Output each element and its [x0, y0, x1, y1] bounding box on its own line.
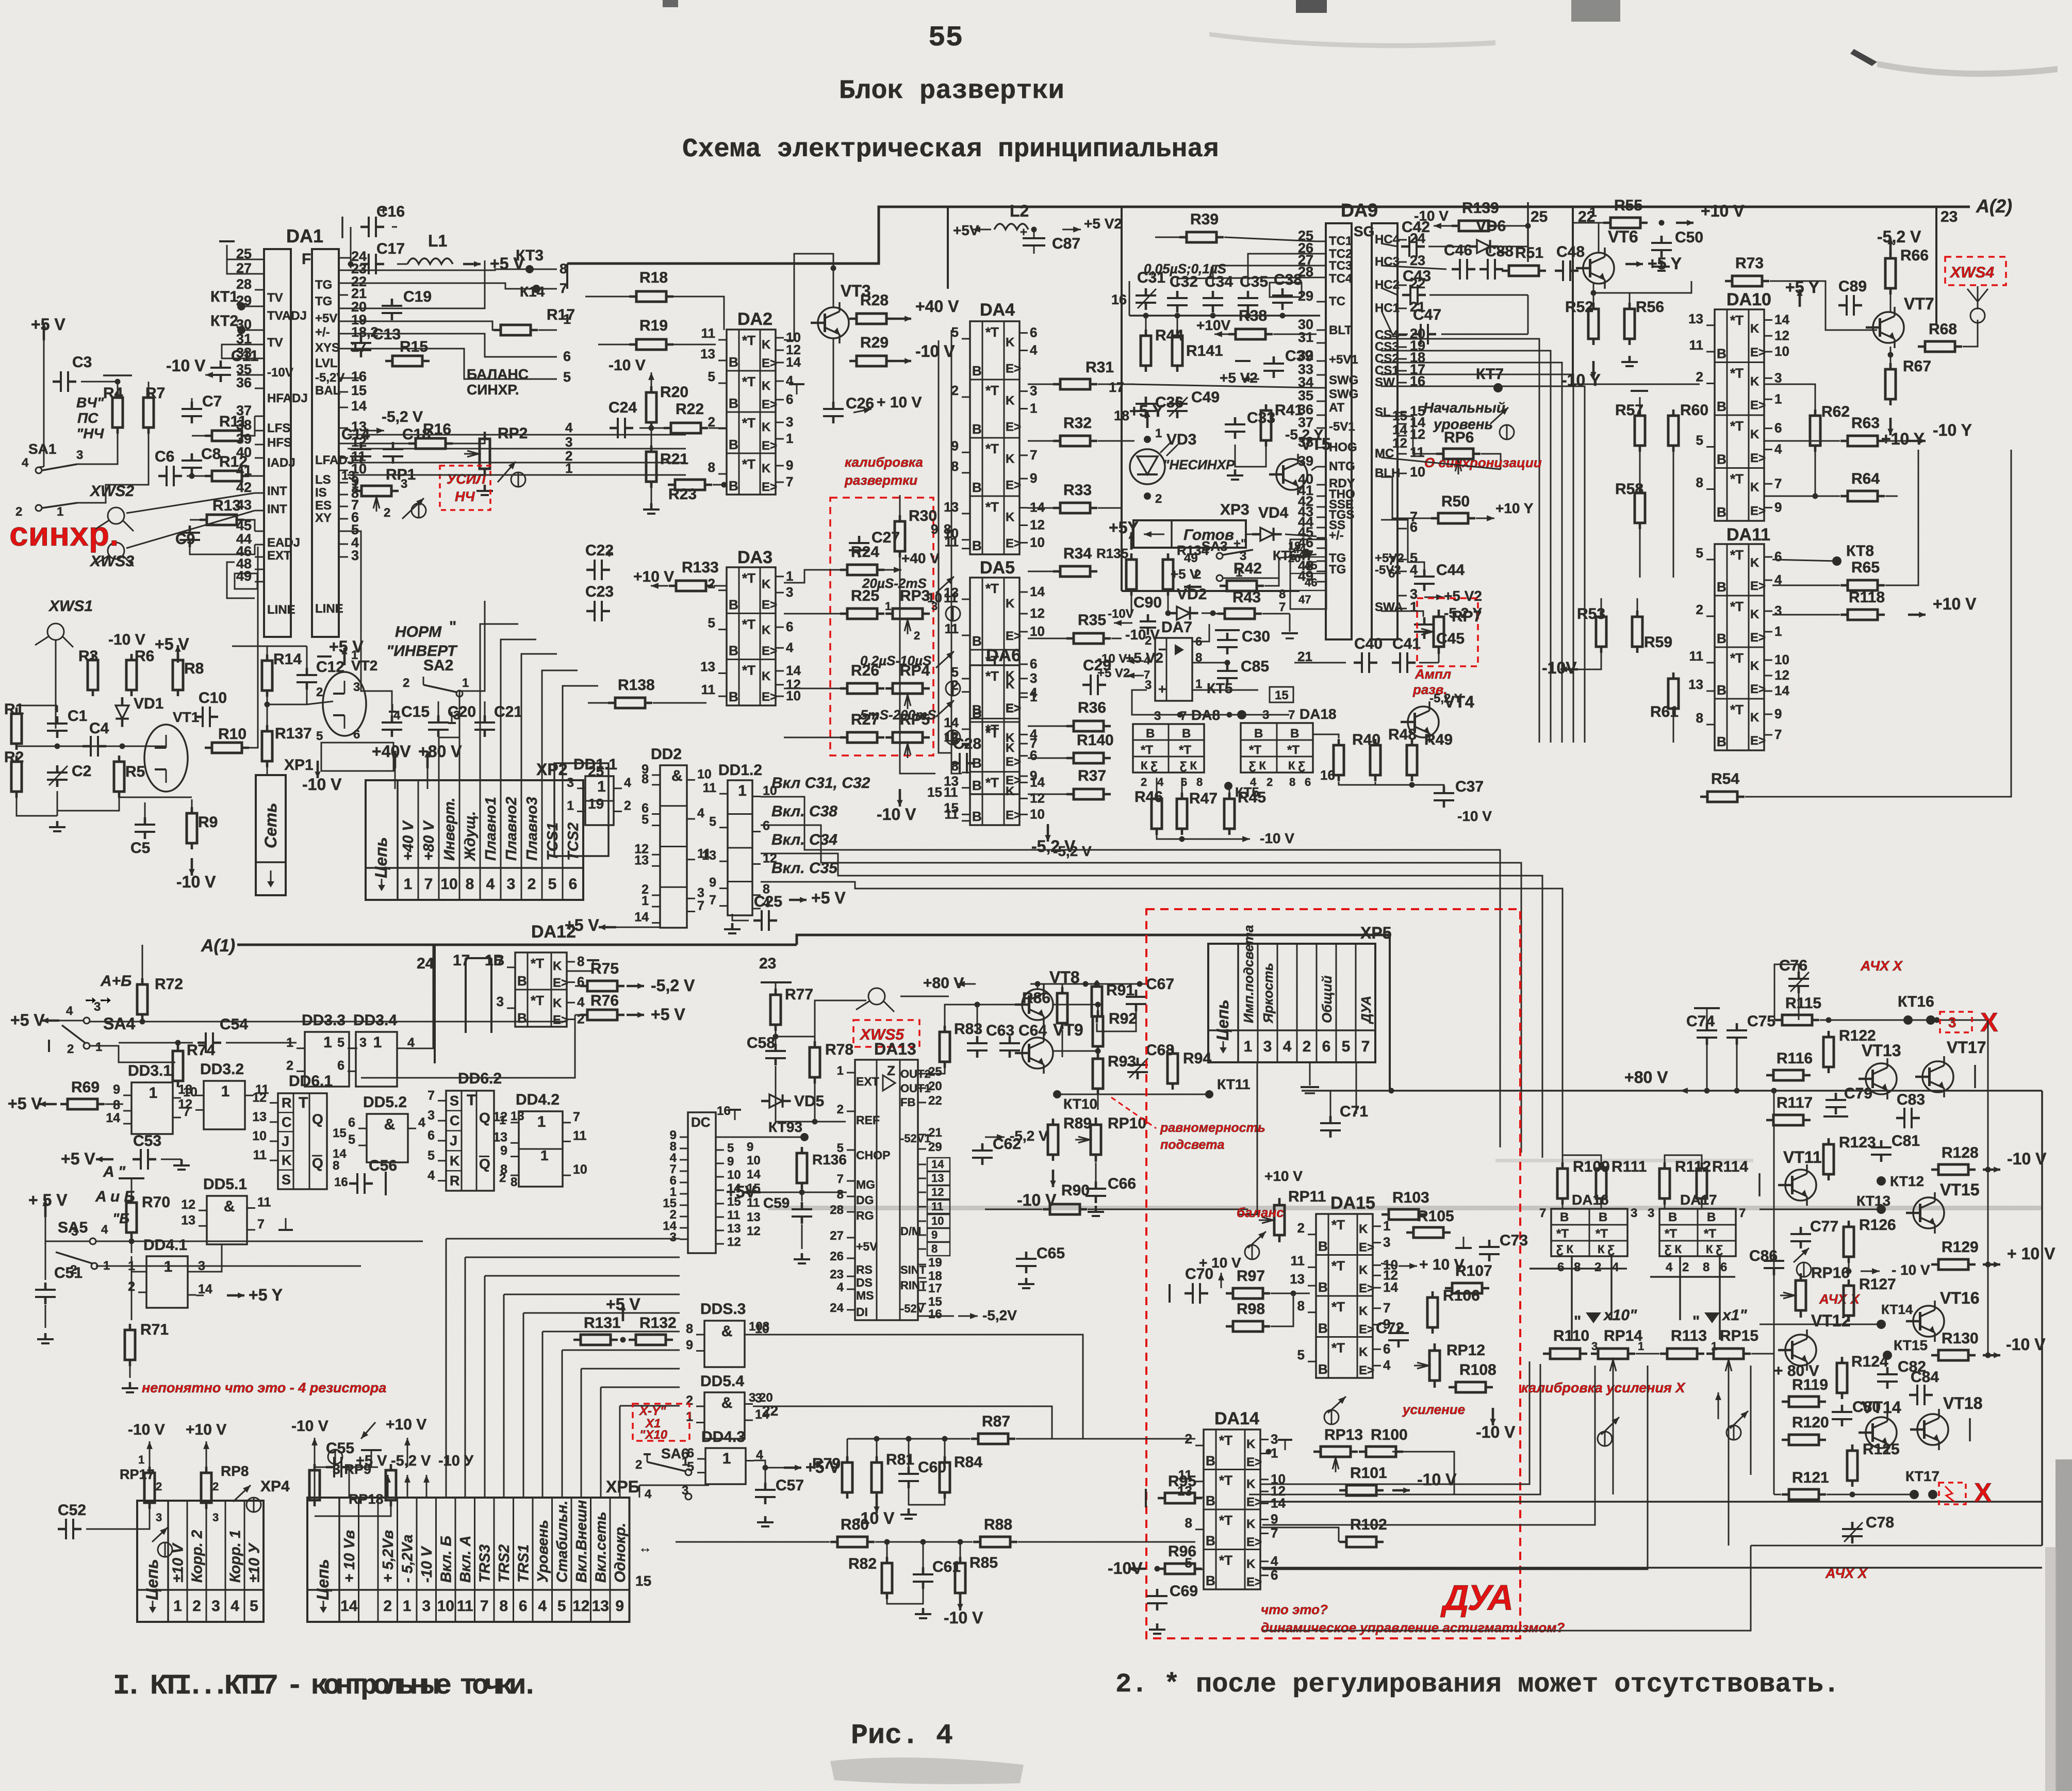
node junction — [1985, 1167, 1991, 1173]
svg-text:C48: C48 — [1556, 243, 1585, 260]
wire — [465, 1257, 680, 1258]
wire — [1573, 384, 1700, 385]
svg-text:R47: R47 — [1189, 790, 1218, 807]
wire — [753, 1406, 1052, 1439]
svg-text:+ 10 V: + 10 V — [877, 394, 922, 411]
svg-text:3: 3 — [1774, 603, 1782, 618]
svg-text:9: 9 — [931, 1228, 938, 1241]
svg-text:R131: R131 — [584, 1315, 621, 1332]
svg-text:DD5.2: DD5.2 — [363, 1094, 407, 1111]
resistor R140 — [1066, 732, 1114, 763]
wire — [1129, 281, 1130, 316]
IC DA9 — [1298, 200, 1425, 639]
svg-text:14: 14 — [106, 1111, 120, 1125]
power terminal -10V r63 — [1908, 421, 1972, 444]
svg-text:К Ƹ: К Ƹ — [1706, 1243, 1723, 1256]
svg-text:TC3: TC3 — [1329, 259, 1352, 273]
power terminal -10V r128 — [1983, 1149, 2047, 1173]
cap stub — [103, 374, 132, 376]
wire — [307, 701, 333, 704]
svg-text:REF: REF — [856, 1113, 880, 1127]
svg-text:9: 9 — [686, 1338, 693, 1353]
svg-text:K: K — [1246, 1517, 1256, 1531]
svg-text:SG: SG — [1354, 223, 1374, 239]
svg-text:MS: MS — [856, 1289, 874, 1302]
svg-text:7: 7 — [257, 1217, 265, 1231]
svg-text:*T: *T — [985, 499, 999, 515]
svg-text:R52: R52 — [1565, 299, 1593, 316]
resistor R81 — [871, 1451, 914, 1499]
svg-text:7: 7 — [424, 876, 433, 893]
svg-text:R78: R78 — [825, 1041, 853, 1058]
svg-text:DD3.2: DD3.2 — [200, 1061, 244, 1078]
svg-text:18: 18 — [928, 1269, 942, 1283]
resistor R59 — [1632, 611, 1672, 653]
adjustment symbol — [1324, 1410, 1339, 1424]
svg-text:Плавно2: Плавно2 — [503, 797, 520, 861]
wire — [90, 1021, 567, 1023]
capacitor C10 — [194, 689, 227, 727]
wire — [1381, 477, 1431, 518]
wire — [243, 547, 258, 748]
svg-text:E>: E> — [1750, 399, 1766, 413]
svg-text:6: 6 — [348, 1115, 355, 1130]
wire — [1673, 709, 1674, 743]
svg-text:4: 4 — [645, 1487, 652, 1501]
gate DD4.3 — [687, 1428, 763, 1484]
svg-text:К Ƹ: К Ƹ — [1288, 759, 1306, 772]
svg-text:12: 12 — [178, 1097, 192, 1111]
svg-text:3: 3 — [670, 1230, 677, 1244]
svg-text:калибровка усиления X: калибровка усиления X — [1521, 1380, 1686, 1395]
resistor R14 — [262, 651, 302, 697]
svg-text:x10": x10" — [1603, 1307, 1637, 1324]
power terminal +5V sa3 — [1109, 518, 1139, 550]
wire — [945, 1005, 1022, 1032]
svg-text:11: 11 — [253, 1148, 267, 1162]
svg-text:+ 5 V: + 5 V — [28, 1191, 68, 1209]
svg-text:5: 5 — [1696, 433, 1703, 448]
wire — [1527, 295, 1529, 334]
node junction — [1409, 782, 1415, 788]
transistor VT18 — [1910, 1394, 1982, 1450]
power terminal +5V vt6 — [1625, 254, 1682, 273]
svg-text:ВЧ": ВЧ" — [76, 395, 104, 410]
svg-text:AT: AT — [1329, 401, 1345, 415]
svg-text:3: 3 — [786, 414, 793, 430]
wire — [909, 1486, 945, 1505]
svg-text:-10 V: -10 V — [419, 1546, 435, 1583]
svg-text:Уровень: Уровень — [535, 1520, 551, 1583]
resistor R96 — [1158, 1543, 1202, 1574]
svg-text:13: 13 — [1688, 677, 1703, 692]
IC DA8 — [1133, 724, 1204, 773]
svg-text:K: K — [1006, 784, 1015, 798]
wire — [1381, 520, 1424, 571]
svg-text:R69: R69 — [71, 1079, 100, 1096]
resistor R10 — [205, 726, 249, 753]
capacitor C32 — [1167, 273, 1198, 313]
svg-text:R25: R25 — [851, 587, 879, 604]
wire — [1375, 782, 1376, 785]
svg-text:DA6: DA6 — [986, 646, 1021, 665]
svg-text:E>: E> — [762, 480, 777, 494]
svg-text:АЧХ X: АЧХ X — [1860, 958, 1903, 974]
adjustment symbol — [328, 1450, 342, 1464]
svg-text:RP2: RP2 — [498, 425, 528, 442]
svg-text:23: 23 — [759, 955, 776, 972]
resistor RP9 — [309, 1464, 320, 1506]
svg-text:К Ƹ: К Ƹ — [1598, 1243, 1615, 1256]
resistor R86 — [1022, 987, 1067, 1029]
resistor R2 — [4, 749, 24, 798]
wire — [1028, 726, 1066, 727]
svg-text:C90: C90 — [1133, 594, 1162, 611]
capacitor C46 — [1444, 242, 1475, 280]
wire — [1772, 560, 1837, 561]
svg-text:ДУА: ДУА — [1440, 1578, 1512, 1618]
svg-text:R98: R98 — [1237, 1301, 1265, 1318]
capacitor C2 — [47, 763, 91, 787]
svg-text:11: 11 — [701, 325, 716, 341]
wire — [538, 330, 557, 331]
wire — [876, 1439, 878, 1463]
connector XP1 — [256, 775, 286, 895]
svg-text:DA4: DA4 — [980, 300, 1015, 320]
svg-text:B: B — [517, 973, 527, 989]
svg-text:+5V1: +5V1 — [1329, 353, 1358, 367]
wire — [581, 1368, 680, 1370]
svg-text:Ƹ К: Ƹ К — [1665, 1243, 1682, 1256]
svg-text:Вкл. А: Вкл. А — [457, 1536, 474, 1583]
capacitor C47 — [1412, 306, 1441, 344]
svg-text:1: 1 — [138, 1453, 144, 1466]
svg-text:DD4.2: DD4.2 — [516, 1091, 560, 1108]
svg-text:12: 12 — [493, 1110, 507, 1124]
connector XWS2 — [89, 483, 134, 531]
svg-text:B: B — [1254, 727, 1263, 741]
capacitor C58 — [747, 1034, 786, 1065]
wire — [1224, 237, 1317, 241]
flip-flop DD6.1 — [252, 1073, 333, 1189]
node junction — [348, 261, 354, 267]
resistor R65 — [1840, 559, 1885, 590]
wire — [438, 701, 439, 717]
svg-text:R63: R63 — [1851, 415, 1880, 432]
svg-text:J: J — [282, 1133, 289, 1149]
resistor R55 — [1603, 197, 1648, 228]
resistor R30 — [895, 507, 937, 557]
svg-text:*T: *T — [742, 570, 755, 586]
svg-text:K: K — [553, 959, 562, 973]
power terminal -10V r85 — [944, 1593, 983, 1627]
wire — [1097, 1089, 1099, 1110]
svg-text:TV: TV — [267, 291, 283, 305]
wire — [1062, 1030, 1063, 1057]
svg-text:7: 7 — [697, 899, 704, 913]
svg-text:C56: C56 — [369, 1157, 397, 1174]
svg-text:Вкл.сеть: Вкл.сеть — [593, 1511, 609, 1583]
capacitor C41 — [1392, 635, 1421, 673]
svg-text:12: 12 — [252, 1091, 267, 1105]
svg-text:12: 12 — [1392, 435, 1407, 451]
svg-text:9: 9 — [747, 1140, 753, 1154]
svg-text:B: B — [1318, 1279, 1328, 1295]
svg-text:TCS1: TCS1 — [545, 823, 561, 861]
svg-text:10: 10 — [1030, 806, 1045, 821]
resistor R13 — [200, 497, 244, 525]
wire — [446, 439, 485, 443]
wire — [1260, 1501, 2042, 1503]
svg-text:1: 1 — [404, 876, 413, 893]
svg-text:DD3.1: DD3.1 — [128, 1062, 172, 1079]
svg-text:E>: E> — [1246, 1455, 1262, 1469]
svg-text:K: K — [1750, 556, 1759, 570]
svg-text:Ƹ К: Ƹ К — [1249, 759, 1267, 772]
wire — [267, 761, 268, 775]
svg-text:E>: E> — [762, 690, 777, 704]
resistor R93 — [1093, 1053, 1136, 1095]
svg-text:B: B — [1146, 727, 1155, 741]
wire — [653, 702, 706, 704]
svg-text:5: 5 — [727, 1141, 734, 1155]
wire — [1774, 964, 1799, 1020]
svg-text:K: K — [1359, 1304, 1368, 1318]
resistor R92 — [1093, 1010, 1137, 1053]
resistor R135 — [1126, 553, 1137, 596]
svg-text:6: 6 — [519, 1598, 528, 1615]
IC DA5 — [944, 558, 1045, 794]
svg-text:C59: C59 — [763, 1195, 790, 1211]
svg-text:+10 Y: +10 Y — [1495, 500, 1534, 516]
capacitor C72 — [1376, 1320, 1409, 1348]
resistor R139 — [1452, 200, 1499, 231]
wire — [1890, 293, 1892, 312]
svg-text:B: B — [1717, 631, 1726, 646]
wire — [1815, 446, 1816, 496]
svg-text:11: 11 — [747, 1196, 760, 1210]
connector table XP4 — [137, 1501, 264, 1622]
wire — [96, 1266, 361, 1267]
svg-text:L1: L1 — [428, 232, 447, 250]
svg-text:8: 8 — [466, 876, 474, 893]
wire — [1593, 293, 1630, 309]
wire — [1131, 589, 1132, 614]
svg-text:DD3.3: DD3.3 — [302, 1012, 346, 1029]
wire — [1613, 1374, 1614, 1494]
wire — [1389, 935, 1391, 1091]
svg-text:*T: *T — [742, 616, 755, 632]
svg-text:CHOP: CHOP — [856, 1148, 890, 1162]
svg-text:КТ93: КТ93 — [768, 1119, 802, 1135]
svg-text:ES: ES — [315, 499, 332, 513]
svg-text:XYS: XYS — [315, 341, 340, 355]
test point KT15 — [1883, 1351, 1892, 1360]
wire — [222, 344, 255, 358]
svg-text:8: 8 — [1289, 776, 1295, 788]
svg-text:EXT: EXT — [856, 1075, 879, 1088]
resistor R15 — [385, 338, 430, 366]
svg-text:C17: C17 — [376, 240, 405, 257]
wire — [1665, 1155, 1702, 1169]
power terminal +5V sa5 — [28, 1191, 68, 1217]
svg-text:+40 V: +40 V — [915, 297, 959, 316]
svg-text:3: 3 — [427, 1108, 435, 1123]
red dashed box XWS4 — [1945, 257, 2006, 285]
wire — [926, 1062, 945, 1074]
svg-text:4: 4 — [577, 994, 585, 1010]
resistor R111 — [1596, 1158, 1647, 1205]
wire — [1987, 1264, 1989, 1324]
wire — [1177, 277, 1317, 286]
svg-text:IS: IS — [315, 486, 327, 500]
resistor R110 — [1543, 1327, 1589, 1359]
svg-text:VT16: VT16 — [1940, 1289, 1979, 1307]
wire — [1598, 223, 1600, 253]
resistor R130 — [1931, 1330, 1979, 1360]
svg-text:R74: R74 — [187, 1042, 215, 1059]
svg-text:B: B — [729, 643, 738, 659]
svg-text:1: 1 — [563, 311, 571, 327]
node junction — [1934, 1017, 1940, 1023]
svg-text:C34: C34 — [1205, 273, 1233, 290]
svg-text:R107: R107 — [1455, 1262, 1492, 1279]
gate DD2 — [634, 746, 712, 928]
svg-text:1: 1 — [373, 1034, 382, 1051]
node junction — [55, 744, 60, 749]
svg-text:−: − — [1158, 642, 1166, 657]
wire — [446, 1238, 680, 1240]
resistor R136 — [797, 1147, 807, 1189]
svg-text:+/-: +/- — [315, 325, 330, 339]
svg-text:C3: C3 — [72, 354, 92, 371]
svg-text:R6: R6 — [135, 648, 154, 665]
wire — [350, 227, 352, 268]
svg-text:C10: C10 — [199, 689, 227, 706]
svg-text:*T: *T — [1730, 471, 1744, 487]
svg-text:-10 V: -10 V — [128, 1421, 165, 1438]
wire — [1429, 294, 1528, 296]
svg-text:1: 1 — [1030, 689, 1037, 704]
svg-text:INT: INT — [267, 502, 287, 516]
svg-text:E>: E> — [1359, 1241, 1374, 1255]
capacitor C67 — [1126, 976, 1174, 1011]
svg-text:2: 2 — [383, 1598, 392, 1615]
wire — [1750, 1366, 1752, 1475]
svg-text:LS: LS — [315, 473, 331, 487]
flip-flop DD6.2 — [427, 1070, 502, 1191]
resistor R73 — [1725, 255, 1769, 286]
resistor R127 — [1844, 1276, 1896, 1322]
wire — [1132, 690, 1289, 715]
svg-text:*T: *T — [1556, 1227, 1569, 1241]
wire — [1111, 638, 1122, 639]
wire — [55, 640, 57, 729]
svg-text:2: 2 — [1155, 492, 1162, 506]
red dashed box XY — [633, 1404, 689, 1441]
resistor R125 — [1847, 1441, 1900, 1487]
capacitor C31 — [1136, 269, 1165, 310]
svg-text:1: 1 — [1638, 1340, 1644, 1353]
IC DA1 — [236, 225, 379, 637]
svg-text:*T: *T — [1730, 547, 1744, 563]
wire — [1728, 1374, 1730, 1546]
svg-text:C89: C89 — [1838, 278, 1867, 295]
gnd r57 — [1631, 390, 1648, 392]
svg-text:2: 2 — [1682, 1260, 1689, 1274]
wire — [1260, 1361, 1530, 1484]
svg-text:7: 7 — [1739, 1206, 1746, 1220]
resistor R41 — [1261, 402, 1303, 447]
svg-text:5: 5 — [250, 1598, 258, 1615]
svg-text:5: 5 — [708, 369, 715, 384]
resistor R39 — [1179, 211, 1224, 242]
wire — [1202, 613, 1223, 614]
svg-text:RP7: RP7 — [1452, 608, 1482, 625]
resistor R58 — [1615, 481, 1645, 529]
power terminal -10V r81 — [855, 1496, 895, 1527]
resistor R78 — [810, 1041, 853, 1083]
resistor R67 — [1885, 358, 1931, 405]
svg-text:C64: C64 — [1018, 1022, 1047, 1039]
svg-text:4: 4 — [624, 776, 631, 790]
svg-text:9: 9 — [951, 438, 959, 453]
wire — [1181, 778, 1183, 799]
num2 vd3 — [1144, 492, 1151, 500]
node junction — [1826, 1017, 1832, 1023]
svg-text:R116: R116 — [1777, 1050, 1813, 1067]
wire — [86, 1503, 150, 1529]
potentiometer RP16 — [1780, 1264, 1850, 1318]
svg-text:C22: C22 — [585, 542, 614, 559]
svg-text:12: 12 — [747, 1224, 761, 1238]
svg-text:I. КТI...КТI7 - контрольные то: I. КТI...КТI7 - контрольные точки. — [113, 1670, 534, 1702]
wire — [503, 1294, 505, 1498]
svg-text:R41: R41 — [1275, 402, 1303, 419]
svg-text:17: 17 — [453, 952, 470, 969]
wire — [1987, 1170, 1989, 1264]
node junction — [1165, 611, 1171, 616]
svg-text:DA14: DA14 — [1214, 1409, 1259, 1428]
svg-text:E>: E> — [1006, 536, 1021, 550]
IC DA15 — [1290, 1193, 1398, 1378]
wire — [1381, 266, 1446, 269]
wire — [206, 1503, 207, 1529]
adjustment symbol — [946, 681, 960, 696]
wire — [1764, 440, 1840, 442]
svg-text:-10 V: -10 V — [108, 631, 145, 648]
svg-text:13: 13 — [592, 1598, 609, 1615]
svg-text:R140: R140 — [1077, 732, 1114, 749]
svg-text:*T: *T — [1730, 650, 1744, 666]
svg-text:B: B — [1318, 1239, 1328, 1254]
svg-text:R130: R130 — [1942, 1330, 1979, 1347]
svg-text:4: 4 — [22, 456, 29, 470]
svg-text:R88: R88 — [984, 1516, 1012, 1533]
svg-text:R35: R35 — [1078, 612, 1106, 629]
svg-text:LINE: LINE — [267, 603, 295, 617]
potentiometer RP2 — [464, 425, 528, 476]
resistor R88 — [973, 1516, 1017, 1547]
svg-text:Схема электрическая принципиал: Схема электрическая принципиальная — [682, 135, 1219, 165]
svg-text:11: 11 — [257, 1195, 271, 1210]
resistor R47 — [1177, 790, 1218, 835]
svg-text:1: 1 — [885, 600, 891, 613]
wire — [1593, 284, 1594, 309]
svg-text:FB: FB — [900, 1096, 915, 1109]
adj rp5 — [936, 700, 954, 717]
wire — [1030, 983, 1147, 985]
